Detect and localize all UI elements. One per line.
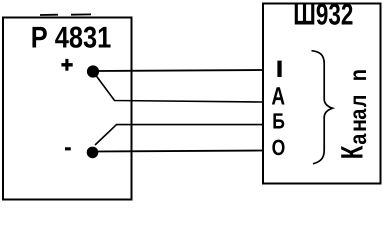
- svg-text:л: л: [345, 95, 371, 108]
- svg-text:Р 4831: Р 4831: [31, 22, 112, 55]
- svg-text:К: К: [335, 146, 370, 160]
- svg-text:н: н: [345, 119, 371, 132]
- svg-text:а: а: [345, 108, 371, 120]
- svg-text:О: О: [272, 135, 286, 160]
- svg-text:І: І: [275, 56, 283, 83]
- svg-text:А: А: [271, 83, 285, 111]
- svg-text:n: n: [345, 69, 371, 81]
- svg-text:а: а: [345, 133, 371, 145]
- svg-text:Б: Б: [272, 109, 285, 134]
- svg-text:Ш932: Ш932: [293, 0, 353, 32]
